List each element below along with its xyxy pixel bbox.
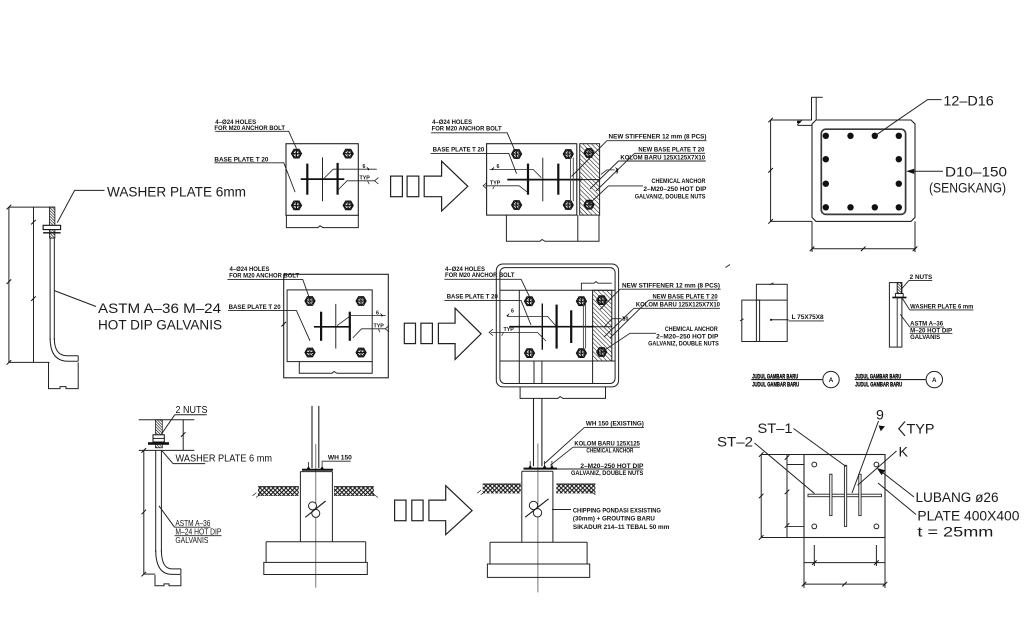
pedestal	[299, 472, 301, 542]
chemical anchors on strip	[597, 296, 607, 305]
stray break tick	[726, 265, 731, 268]
svg-text:GALVANIZ, DOUBLE NUTS: GALVANIZ, DOUBLE NUTS	[635, 193, 706, 200]
svg-text:2–M20–250 HOT DIP: 2–M20–250 HOT DIP	[643, 186, 706, 193]
label: BASE PLATE T 20	[433, 147, 485, 154]
ground hatch left	[258, 487, 299, 496]
svg-text:NEW BASE PLATE T 20: NEW BASE PLATE T 20	[653, 293, 719, 300]
svg-text:BASE PLATE T 20: BASE PLATE T 20	[447, 293, 499, 300]
label: WASHER PLATE 6 mm	[176, 453, 273, 465]
label: NEW STIFFENER 12 mm (8 PCS)	[622, 282, 720, 289]
center axis	[315, 444, 317, 587]
L profile left leg	[742, 300, 760, 341]
12-D16 rebar dots	[823, 133, 902, 211]
svg-text:KOLOM BARU 125X125X7X10: KOLOM BARU 125X125X7X10	[620, 154, 705, 161]
hex anchor bolts (4x)	[292, 149, 302, 158]
svg-text:2–M20–250 HOT DIP: 2–M20–250 HOT DIP	[656, 334, 718, 341]
svg-text:NEW STIFFENER 12 mm (8 PCS): NEW STIFFENER 12 mm (8 PCS)	[622, 282, 720, 289]
svg-text:LUBANG ø26: LUBANG ø26	[916, 490, 999, 506]
pipe break symbol	[309, 502, 317, 510]
label: 2 NUTS	[910, 274, 933, 281]
label: WH 150	[328, 455, 353, 462]
transform arrow bottom row	[395, 500, 406, 521]
svg-text:KOLOM BARU 125X125X7X10: KOLOM BARU 125X125X7X10	[636, 302, 721, 309]
outer rounded border	[496, 264, 618, 387]
side view below	[506, 215, 599, 241]
J hook	[156, 550, 181, 574]
dimension line (inner, partial lengths)	[33, 207, 35, 362]
label: 4-O24 HOLES FOR M20 ANCHOR BOLT	[229, 266, 299, 279]
label: KOLOM BARU 125X125 / CHEMICAL ANCHOR	[574, 441, 640, 455]
dimension between plates	[182, 420, 184, 451]
hex anchor bolts on plate	[512, 150, 522, 159]
label: CHEMICAL ANCHOR / 2-M20-250 HOT DIP / GALVANIZ, DOUBLE NUTS	[635, 178, 707, 200]
svg-text:JUDUL GAMBAR BARU: JUDUL GAMBAR BARU	[752, 382, 799, 389]
leader into plate	[444, 301, 531, 325]
label: CHEMICAL ANCHOR / 2-M20-250 HOT DIP / GALVANIZ, DOUBLE NUTS	[648, 326, 719, 347]
svg-text:6: 6	[363, 164, 366, 170]
svg-text:A: A	[932, 377, 937, 384]
svg-text:TYP: TYP	[907, 422, 935, 438]
label: WASHER PLATE 6mm	[107, 185, 246, 201]
center axis	[537, 444, 539, 593]
label: ASTM A-36 M-24 HOT DIP GALVANIS	[98, 301, 222, 334]
leader to top-left bolt	[227, 280, 310, 300]
two nuts	[153, 435, 164, 442]
svg-text:CHEMICAL ANCHOR: CHEMICAL ANCHOR	[665, 326, 718, 333]
label: WH 150 (EXISTING)	[586, 420, 644, 427]
label: D10-150 (SENGKANG) with arrow leader	[908, 170, 943, 172]
svg-text:NEW BASE PLATE T 20: NEW BASE PLATE T 20	[638, 147, 705, 154]
anchor bolts and base plate	[530, 461, 552, 466]
plate outline	[804, 455, 885, 538]
label: 2-M20-250 HOT DIP / GALVANIZ, DOUBLE NUTS	[571, 463, 643, 477]
svg-text:WASHER PLATE 6 mm: WASHER PLATE 6 mm	[910, 303, 974, 310]
left title callout A	[752, 373, 799, 388]
label: NEW STIFFENER 12 mm (8 PCS)	[609, 134, 707, 141]
plate band horizontals	[500, 289, 615, 291]
ground hatch right	[334, 487, 374, 496]
chemical anchor bolts on stiffener strip	[584, 149, 594, 158]
svg-text:FOR M20 ANCHOR BOLT: FOR M20 ANCHOR BOLT	[445, 272, 515, 279]
bolt shaft	[155, 450, 157, 552]
bottom dimension chain	[803, 538, 805, 589]
column cruciform section	[509, 304, 612, 350]
existing WH150 column	[311, 406, 313, 468]
svg-text:WASHER PLATE 6 mm: WASHER PLATE 6 mm	[176, 453, 273, 465]
transform arrow top row	[391, 176, 403, 197]
label: 12-D16 with leader	[875, 100, 942, 136]
leader	[590, 161, 619, 189]
L profile tall plate	[756, 284, 787, 341]
label: KOLOM BARU 125X125X7X10	[620, 154, 705, 161]
leader to top-left bolt	[431, 133, 515, 152]
threaded bolt top (hatched)	[50, 207, 55, 238]
weld symbol 6	[337, 316, 386, 326]
leader to washer plate	[57, 190, 104, 222]
label: 4-O24 HOLES FOR M20 ANCHOR BOLT	[445, 266, 515, 279]
bolt shaft	[896, 283, 898, 348]
column outline (chamfered square)	[812, 120, 915, 221]
anchor bolts and base plate on pedestal	[309, 462, 323, 467]
svg-text:WH 150 (EXISTING): WH 150 (EXISTING)	[586, 420, 644, 427]
top plate line	[139, 419, 195, 421]
label: NEW BASE PLATE T 20	[638, 147, 705, 154]
svg-text:BASE PLATE T 20: BASE PLATE T 20	[229, 304, 282, 311]
divider line	[756, 299, 787, 301]
svg-text:SIKADUR 214–11 TEBAL 50 mm: SIKADUR 214–11 TEBAL 50 mm	[573, 524, 670, 531]
footing	[490, 541, 587, 543]
svg-text:NEW STIFFENER 12 mm (8 PCS): NEW STIFFENER 12 mm (8 PCS)	[609, 134, 707, 141]
leader into plate	[431, 153, 517, 173]
label: BASE PLATE T 20	[229, 304, 282, 311]
stiffener hatched strip	[593, 290, 612, 361]
J hook bottom	[50, 338, 78, 361]
svg-text:GALVANIS: GALVANIS	[910, 334, 940, 341]
column cruciform section	[301, 157, 345, 201]
svg-text:FOR M20 ANCHOR BOLT: FOR M20 ANCHOR BOLT	[214, 125, 285, 132]
hex anchor bolts	[305, 297, 315, 306]
svg-text:ASTM A–36 M–24: ASTM A–36 M–24	[98, 301, 221, 317]
base plate (inner rect)	[287, 290, 372, 362]
transform arrow middle row	[404, 323, 415, 343]
washer plate (thick)	[148, 442, 169, 445]
nut	[895, 294, 903, 298]
bolt holes LUBANG O26	[812, 462, 879, 529]
footing	[266, 541, 366, 543]
label: ASTM A-36 M-24 HOT DIP GALVANIS	[175, 518, 221, 545]
svg-text:2 NUTS: 2 NUTS	[910, 274, 933, 281]
leader into plate	[228, 311, 310, 341]
svg-text:CHEMICAL ANCHOR: CHEMICAL ANCHOR	[586, 447, 633, 454]
plate side view from rounded plan above	[520, 387, 605, 399]
pedestal outline (outer square)	[284, 274, 389, 378]
label: L 75X75X8	[771, 319, 788, 321]
svg-text:12–D16: 12–D16	[943, 93, 994, 109]
plate elevation	[889, 283, 902, 348]
dimension line (outer, overall length)	[8, 207, 10, 362]
svg-text:A: A	[829, 377, 834, 384]
plate side view below	[299, 362, 372, 374]
svg-text:(30mm) + GROUTING BARU: (30mm) + GROUTING BARU	[573, 516, 656, 523]
pedestal	[521, 471, 523, 542]
break tick top	[770, 283, 774, 285]
length dimension	[143, 450, 145, 574]
ground hatch right	[556, 484, 595, 493]
svg-text:t = 25mm: t = 25mm	[917, 524, 993, 540]
pipe break symbol	[529, 501, 537, 509]
leader to lower chemical anchor	[589, 186, 644, 205]
column cruciform section	[507, 158, 599, 202]
label: ASTM A-36 M-20 HOT DIP GALVANIS	[910, 321, 952, 341]
svg-text:HOT DIP GALVANIS: HOT DIP GALVANIS	[98, 318, 222, 334]
svg-text:CHIPPING PONDASI EXSISTING: CHIPPING PONDASI EXSISTING	[573, 507, 661, 514]
left dimension of column	[770, 120, 772, 221]
threaded top (hatched)	[897, 283, 901, 294]
leader to top-left bolt	[444, 279, 530, 299]
verticals below plate band	[533, 361, 535, 384]
sengkang stirrup (inner rounded square)	[821, 129, 905, 214]
svg-text:ST–1: ST–1	[758, 421, 793, 437]
label: WASHER PLATE 6 mm	[910, 303, 974, 310]
washer plate on bolt	[43, 225, 61, 229]
label: 4-O24 HOLES FOR M20 ANCHOR BOLT	[432, 119, 502, 132]
extension line top	[9, 206, 54, 208]
svg-text:PLATE 400X400: PLATE 400X400	[917, 509, 1019, 525]
svg-text:JUDUL GAMBAR BARU: JUDUL GAMBAR BARU	[855, 382, 902, 389]
svg-text:GALVANIZ, DOUBLE NUTS: GALVANIZ, DOUBLE NUTS	[571, 470, 643, 477]
leader to top-left anchor bolt	[215, 131, 296, 148]
stiffener top notch	[581, 282, 611, 291]
label: CHIPPING PONDASI EXSISTING ...	[573, 507, 670, 531]
threaded bolt (hatched)	[155, 420, 162, 448]
label: BASE PLATE T 20	[214, 156, 269, 163]
weld symbol 6	[324, 169, 377, 178]
columns	[533, 398, 535, 466]
new stiffener edge-on	[583, 302, 585, 348]
washer plate	[892, 297, 906, 299]
cruciform stiffeners ST-1 / ST-2 (outlined bars)	[808, 465, 882, 526]
svg-text:FOR M20 ANCHOR BOLT: FOR M20 ANCHOR BOLT	[432, 125, 502, 132]
svg-text:D10–150: D10–150	[945, 164, 1007, 180]
extension line bottom	[9, 361, 50, 363]
label: NEW BASE PLATE T 20	[653, 293, 719, 300]
svg-text:GALVANIS: GALVANIS	[175, 535, 208, 545]
right title callout A	[855, 373, 902, 388]
svg-text:ST–2: ST–2	[717, 435, 753, 451]
svg-text:(SENGKANG): (SENGKANG)	[929, 180, 1006, 196]
svg-text:GALVANIZ, DOUBLE NUTS: GALVANIZ, DOUBLE NUTS	[648, 341, 719, 348]
base plate outline	[286, 144, 358, 216]
label: 2 NUTS	[176, 404, 208, 416]
svg-text:BASE PLATE T 20: BASE PLATE T 20	[433, 147, 485, 154]
svg-text:WH 150: WH 150	[328, 455, 353, 462]
svg-text:CHEMICAL ANCHOR: CHEMICAL ANCHOR	[652, 178, 706, 185]
svg-text:BASE PLATE T 20: BASE PLATE T 20	[214, 156, 269, 163]
leader to lower chemical anchor	[603, 333, 657, 351]
inner rounded border	[500, 268, 615, 384]
svg-text:6: 6	[511, 308, 514, 314]
svg-text:L 75X75X8: L 75X75X8	[792, 314, 825, 321]
embedment block below hook	[155, 575, 181, 586]
svg-text:9: 9	[616, 170, 619, 176]
column cruciform section	[314, 304, 351, 349]
ground hatch left	[483, 484, 521, 493]
svg-text:K: K	[899, 445, 909, 461]
bottom dimension of column	[811, 221, 813, 252]
bolt shaft	[49, 238, 51, 340]
plate left edge	[518, 290, 520, 383]
new stiffener hatched strip	[580, 144, 600, 215]
leader to stiffener	[572, 141, 607, 177]
leader into plate	[214, 163, 295, 192]
left dimension chain	[760, 455, 762, 538]
label: KOLOM BARU 125X125X7X10	[636, 302, 721, 309]
label: BASE PLATE T 20	[447, 293, 499, 300]
new stiffener plate edge-on (vertical)	[571, 158, 574, 202]
svg-text:WASHER PLATE 6mm: WASHER PLATE 6mm	[107, 185, 246, 201]
hex anchor bolts	[525, 297, 535, 306]
tick left	[740, 319, 744, 321]
new base plate outline	[487, 144, 577, 215]
svg-text:9: 9	[876, 408, 884, 424]
leader to bolt shaft	[54, 291, 96, 307]
svg-text:FOR M20 ANCHOR BOLT: FOR M20 ANCHOR BOLT	[229, 272, 299, 279]
top-left cover mini dimension	[811, 97, 813, 120]
bottom plate line	[139, 449, 195, 451]
svg-text:2 NUTS: 2 NUTS	[176, 404, 208, 416]
embedment block below hook	[49, 362, 79, 388]
label: 4-O24 HOLES FOR M20 ANCHOR BOLT	[214, 119, 285, 132]
leader	[596, 153, 635, 191]
base plate side view below	[286, 215, 358, 227]
svg-text:6: 6	[376, 310, 379, 316]
